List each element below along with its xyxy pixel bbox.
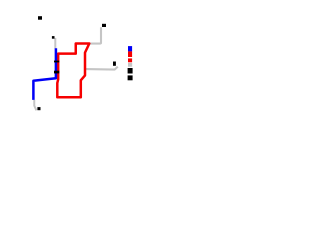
station dot left of gray segment top bbox=[52, 36, 55, 39]
station tick upper across blue+red pair bbox=[54, 61, 59, 63]
legend chip red 2 bbox=[128, 58, 132, 62]
legend chip gray bbox=[128, 63, 132, 67]
gray line: east segment from red loop with NE hook tip bbox=[86, 67, 118, 70]
gray line: SW tail below blue end with SE hook bbox=[34, 100, 36, 111]
station block above east gray hook bbox=[113, 62, 116, 66]
legend chip blue bbox=[128, 46, 132, 51]
blue line bbox=[33, 48, 56, 100]
station label block NW bbox=[38, 16, 42, 20]
gray line: segment above blue line top bbox=[54, 38, 56, 49]
station label block N at top of gray branch bbox=[102, 24, 106, 27]
station tick lower across blue+red pair bbox=[54, 71, 59, 74]
legend chip black 1 bbox=[128, 68, 133, 74]
station dot right of SW gray tail bbox=[37, 107, 40, 110]
legend chip black 2 bbox=[128, 75, 133, 80]
gray line: north branch vertical + west elbow to red junction bbox=[90, 27, 102, 43]
red loop line (closed) bbox=[57, 44, 89, 98]
legend chip red 1 bbox=[128, 51, 132, 57]
